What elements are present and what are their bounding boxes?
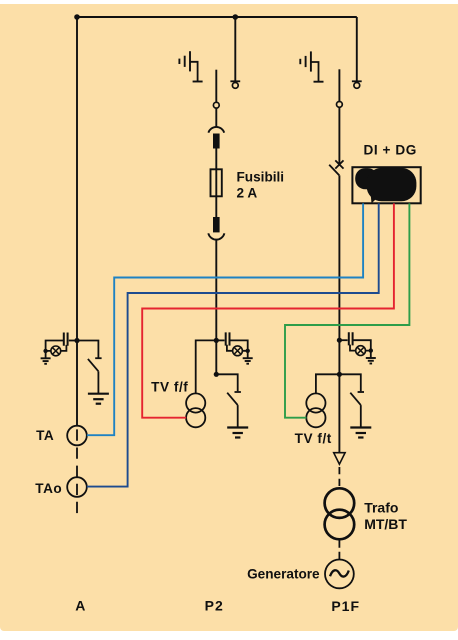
svg-text:MT/BT: MT/BT xyxy=(364,516,407,532)
svg-text:TA: TA xyxy=(36,428,54,443)
svg-text:TV f/t: TV f/t xyxy=(295,431,332,446)
svg-text:Fusibili: Fusibili xyxy=(237,169,285,184)
svg-text:TV f/f: TV f/f xyxy=(151,379,188,394)
svg-text:P1F: P1F xyxy=(331,598,360,614)
svg-text:Trafo: Trafo xyxy=(364,500,398,516)
svg-text:Generatore: Generatore xyxy=(247,567,320,582)
svg-text:A: A xyxy=(75,597,85,613)
svg-text:P2: P2 xyxy=(205,597,224,613)
svg-text:2 A: 2 A xyxy=(237,185,258,200)
svg-text:TAo: TAo xyxy=(35,481,62,496)
svg-text:DI + DG: DI + DG xyxy=(364,142,417,157)
